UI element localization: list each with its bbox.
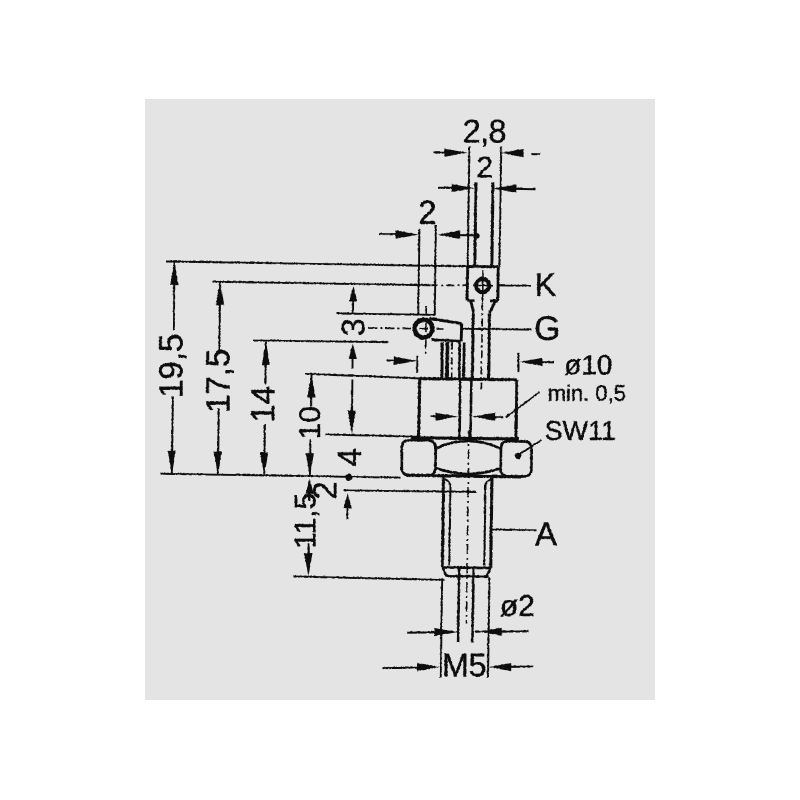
dimension 4 top reference line (326, 434, 419, 436)
dimension 2 gate left tail (379, 233, 396, 235)
hex right face (500, 441, 531, 476)
hex flange bottom edge / body bottom (411, 437, 519, 438)
dimension 19,5 line upper (172, 261, 175, 330)
dimension 19,5 line lower (171, 396, 172, 474)
grey drawing panel (145, 99, 655, 700)
min 0,5 left tail (431, 415, 438, 417)
dimension 2,8 line left arrow (444, 148, 467, 156)
dimension 2,8 right tail dash (531, 153, 540, 155)
svg-text:2: 2 (418, 194, 436, 231)
svg-text:SW11: SW11 (544, 416, 616, 446)
dimension 4 down arrow (347, 410, 355, 433)
gate tab top edge (429, 318, 462, 323)
extension line 2,8 left (467, 146, 469, 266)
extension line 2,8 right (499, 146, 501, 266)
gate tab bottom edge (431, 339, 461, 340)
diameter 10 extension line left (416, 355, 418, 372)
thread M5 right arrow (488, 663, 511, 671)
dimension 2,8 right arrow (500, 149, 523, 157)
svg-text:G: G (534, 310, 560, 348)
dimension 3 up arrow (349, 286, 357, 301)
dimension 2 stud up arrow (343, 493, 351, 508)
dimension 11,5 up arrow (305, 478, 313, 493)
dimension 2 gate end dot (473, 233, 479, 239)
dimension 2 gate left arrow (395, 230, 418, 238)
node G leader line (461, 327, 531, 330)
svg-text:min. 0,5: min. 0,5 (547, 380, 625, 405)
dimension 11,5 bottom reference line (293, 576, 444, 580)
svg-text:10: 10 (294, 406, 327, 439)
diameter 2 right tail (496, 630, 528, 632)
min 0,5 right arrow (472, 412, 495, 420)
diameter 10 right arrow (519, 357, 542, 365)
dimension 19,5 up arrow (170, 261, 178, 284)
body outline top (418, 378, 516, 379)
svg-text:19,5: 19,5 (152, 333, 189, 397)
body interior line left (458, 380, 461, 438)
thread M5 extension line left (440, 578, 441, 678)
cathode tab hole crosshair horizontal (473, 284, 493, 286)
centerline from 17,5 ref to tab (430, 284, 468, 286)
cathode tab outline (467, 266, 498, 301)
diameter 10 left arrow (393, 356, 416, 364)
min 0,5 right tail (494, 416, 503, 418)
gate lead line 1 (440, 342, 443, 378)
cathode lead below tab left edge (471, 313, 475, 379)
dimension 4 upper tail (351, 379, 353, 412)
thread M5 extension line right (488, 577, 490, 678)
body outline left (417, 378, 421, 438)
svg-text:4: 4 (331, 448, 368, 466)
cathode tab hole (476, 279, 489, 292)
cathode lead left edge (474, 182, 475, 266)
stud chamfer bottom (446, 575, 488, 578)
gate tab bottom reference line (253, 340, 389, 342)
dimension 19,5 down arrow (167, 450, 175, 473)
svg-text:14: 14 (244, 386, 281, 423)
cathode tab taper right (489, 300, 495, 312)
dimension 2 top left arrow (451, 184, 474, 192)
dimension 19,5 top reference line (166, 261, 467, 266)
hex middle face bottom arc (435, 467, 500, 473)
gate tab right edge (459, 323, 462, 341)
dimension 17,5 down arrow (213, 451, 221, 474)
dimension 2 top left tail (438, 186, 452, 188)
node A leader line (491, 528, 536, 531)
extension line 2 gate left (418, 229, 419, 315)
body axis centerline (466, 430, 469, 623)
svg-text:2: 2 (476, 151, 493, 184)
diameter 2 right arrow (479, 627, 502, 635)
extension line 2 gate right (434, 225, 435, 316)
diameter 10 extension line right (517, 352, 519, 371)
svg-text:3: 3 (335, 318, 371, 336)
stud bottom edge (442, 566, 490, 569)
dimension 14 line upper (264, 341, 266, 384)
diameter 10 right tail (541, 361, 554, 363)
svg-text:A: A (535, 515, 557, 552)
dimension 10 line lower (308, 439, 311, 476)
svg-text:K: K (534, 267, 555, 303)
gate eyelet crosshair vertical (424, 306, 427, 354)
hex outline (406, 475, 521, 476)
stud thread inner right (484, 484, 485, 565)
dimension 2 stud arrow tail (346, 506, 348, 519)
svg-text:ø10: ø10 (564, 349, 612, 380)
dimension 2 stud bottom reference line (343, 490, 476, 492)
stud left edge (442, 477, 443, 567)
stud thread inner left (449, 484, 450, 566)
anode pigtail right edge (472, 568, 473, 642)
SW11 leader line (520, 440, 542, 454)
dimension 17,5 top reference line (212, 281, 430, 285)
dimension 2,8 left tail (433, 151, 446, 153)
stud chamfer right (486, 568, 490, 577)
gate eyelet ring (414, 319, 432, 337)
dimension 2 top right tail (515, 187, 535, 189)
min 0,5 leader diagonal (506, 392, 540, 417)
stud thread runout left (445, 479, 450, 486)
gate lead line 2 (445, 342, 449, 378)
thread M5 left arrow (417, 663, 440, 671)
hex middle face top arc (435, 441, 500, 449)
gate lead line 4 (462, 342, 465, 378)
node K leader line (499, 284, 531, 286)
gate eyelet crosshair horizontal (368, 327, 443, 330)
body interior line right (469, 380, 472, 438)
dimension 2 top right arrow (493, 184, 516, 192)
dimension 4 / 2 shared dot (345, 474, 352, 481)
gate lead centerline (450, 342, 453, 378)
cathode lead right edge (491, 182, 492, 266)
svg-text:2,8: 2,8 (463, 113, 506, 149)
SW11 leader dot (514, 452, 521, 459)
body outline right (514, 379, 518, 438)
thread M5 right tail (510, 665, 533, 667)
dimension 17,5 line upper (218, 281, 221, 353)
dimension 3 lower arrow (348, 343, 356, 358)
dimension 2 gate right arrow (437, 230, 460, 238)
cathode lead below tab right edge (487, 313, 491, 379)
diameter 2 left arrow (434, 628, 457, 636)
dimension 10 down arrow (305, 453, 313, 476)
dimension 3 lower tail (351, 356, 353, 368)
anode pigtail left edge (458, 568, 459, 642)
dimension 10 top reference line (305, 373, 418, 378)
dimension 11,5 down arrow (304, 553, 312, 576)
min 0,5 left arrow (435, 412, 458, 420)
dimension 11,5 lower line (307, 543, 309, 553)
diameter 2 right arrow lead-in (475, 630, 481, 632)
dimension 2 gate right tail (458, 234, 477, 236)
dimension 10 line upper (310, 374, 312, 406)
cathode tab taper left (470, 300, 473, 313)
dimension 11,5 upper tail (308, 492, 310, 502)
dimension 14 down arrow (260, 452, 268, 475)
thread M5 left tail (382, 666, 418, 668)
svg-text:11,5: 11,5 (289, 492, 322, 548)
stud right edge (490, 478, 491, 568)
dimension 14 line lower (263, 424, 266, 476)
cathode tab hole crosshair vertical (481, 270, 483, 302)
diameter 2 left tail (407, 631, 437, 633)
svg-text:M5: M5 (442, 647, 486, 683)
dimension 3 upper tail (352, 299, 354, 314)
diameter 10 left tail (386, 359, 394, 361)
dimension 10 up arrow (307, 374, 315, 397)
hex left face (401, 440, 435, 475)
dimension 3 upper reference line (336, 313, 435, 314)
cathode centerline below tab (481, 302, 482, 389)
dimension 14 up arrow (261, 342, 269, 365)
gate lead line 3 (458, 342, 461, 378)
seating plane reference line (160, 473, 400, 477)
svg-text:17,5: 17,5 (199, 348, 236, 412)
dimension 17,5 up arrow (216, 282, 224, 305)
svg-text:ø2: ø2 (499, 590, 534, 623)
stud chamfer left (442, 567, 446, 576)
dimension 17,5 line lower (217, 408, 220, 475)
stud thread runout right (485, 479, 491, 486)
